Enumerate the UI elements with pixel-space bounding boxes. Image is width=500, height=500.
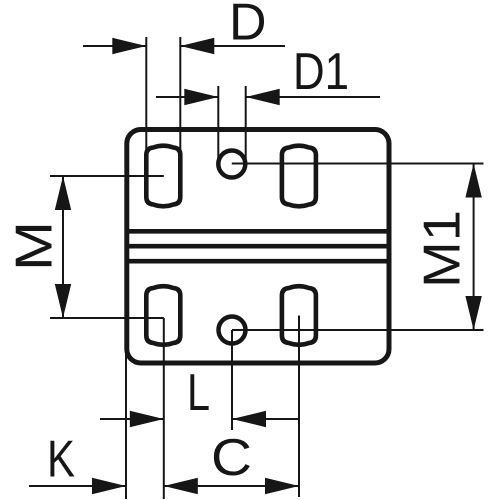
label D	[233, 4, 264, 40]
label M1	[424, 213, 460, 284]
label C	[214, 439, 250, 476]
slot bottom-right	[282, 286, 316, 345]
extension line K left (plate edge)	[125, 352, 127, 499]
dimension C line with inside arrows (left arrow shared with K)	[164, 478, 299, 494]
hole circle top	[218, 151, 245, 178]
dimension D line right tail with arrow	[180, 38, 285, 54]
dimension D1 line left tail with arrow	[156, 89, 218, 105]
extension line C right (slot centre)	[298, 316, 300, 498]
groove line 1	[127, 229, 389, 234]
extension line D1 right	[245, 86, 247, 161]
dimension K line left tail with arrow	[29, 478, 126, 494]
dimension D line left tail with arrow	[83, 38, 146, 54]
extension line M1 top	[232, 163, 484, 165]
groove line 3	[127, 259, 389, 264]
dimension D1 line right tail with arrow	[246, 89, 380, 105]
dimension L line left tail with arrow	[100, 411, 164, 427]
extension line M1 bottom	[232, 329, 484, 331]
extension line M bottom	[50, 317, 164, 319]
dimension L line right tail with arrow	[232, 411, 299, 427]
extension line D left	[145, 37, 147, 190]
label L	[190, 374, 208, 410]
dimension M vertical line with arrows	[55, 176, 71, 318]
extension line L/K/C slot-centre left	[163, 318, 165, 499]
plate body outline	[127, 130, 389, 364]
label M	[16, 226, 52, 266]
extension line D1 left	[217, 86, 219, 159]
slot top-left	[146, 146, 180, 207]
dimension M1 vertical line with arrows	[465, 164, 481, 331]
extension line L right (circle centre)	[231, 330, 233, 430]
slot top-right	[282, 146, 316, 207]
extension line D right	[179, 37, 181, 200]
label D1	[297, 53, 347, 89]
label K	[50, 441, 74, 477]
groove line 2	[127, 244, 389, 249]
slot bottom-left	[146, 286, 180, 345]
hole circle bottom	[219, 317, 246, 344]
extension line M top	[50, 175, 164, 177]
